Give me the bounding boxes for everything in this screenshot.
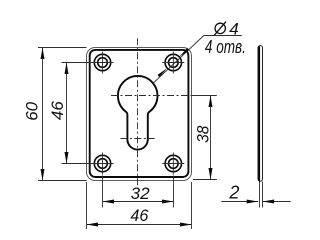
dim 38 extension bottom [193,179,217,181]
dim 32 arrow left [103,200,115,204]
dim 2 arrow right (pointing left) [263,200,275,204]
svg-text:60: 60 [22,101,41,120]
dim 46 left extension bottom [62,163,93,165]
dim 32 extension left [102,176,104,208]
plate inner contour [90,50,189,177]
dim 2 line right part [263,201,291,203]
hole top-left [92,52,114,74]
svg-text:2: 2 [228,182,239,202]
dim 60 extension top [38,47,87,49]
hole top-right [162,52,184,74]
dim 46 left arrow up [65,63,69,75]
dim 60 arrow down [41,169,45,181]
leader slant line [153,36,204,84]
leader shelf [204,35,242,37]
hole bottom-right [162,153,184,175]
svg-text:32: 32 [131,184,151,203]
leader arrow lower-left [158,68,168,77]
svg-text:4: 4 [229,19,238,38]
dim 2 arrow left (pointing right) [247,200,259,204]
dim 46 bottom arrow left [87,223,99,227]
side view strip outline [258,46,263,182]
dim 46 bottom extension right [191,182,193,229]
svg-text:38: 38 [193,125,212,143]
svg-text:46: 46 [48,101,67,120]
dim 32 extension right [173,176,175,208]
keyhole horizontal centerline [111,95,195,97]
dim 46 left arrow down [65,152,69,164]
dim 46 bottom extension left [86,182,88,229]
dim 46 left extension top [62,62,93,64]
svg-text:4 отв.: 4 отв. [205,37,246,57]
dim 38 arrow up [209,96,213,108]
dim 2 extension left [259,182,261,208]
hole bottom-left [92,153,114,175]
keyhole vertical centerline [137,38,139,185]
side view face thick line [258,46,260,180]
stem arc centerline [120,138,154,140]
dim 46 left line [66,63,68,164]
dim 32 line [103,201,174,203]
dim 38 line [210,96,212,180]
plate outer contour [87,48,192,181]
dim 32 arrow right [162,200,174,204]
dim 60 arrow up [41,48,45,60]
keyhole cutout [118,76,158,150]
dim 38 arrow down [209,168,213,180]
dim 2 extension right [262,182,264,208]
dim 46 bottom arrow right [180,223,192,227]
dim 60 line [42,48,44,181]
leader arrow upper-right [179,48,189,57]
diameter symbol [214,22,226,36]
dim 38 extension top (centerline continuation) [192,95,217,97]
svg-text:46: 46 [130,206,149,225]
dim 46 bottom line [87,224,192,226]
dim 2 line left part [221,201,258,203]
dim 60 extension bottom [38,180,87,182]
